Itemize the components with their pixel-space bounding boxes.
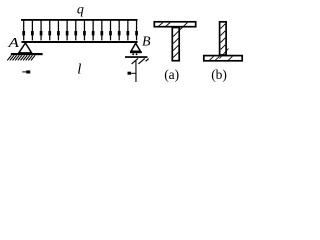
load arrow 14 bbox=[135, 20, 138, 40]
load arrow 4 bbox=[48, 20, 51, 40]
section (a) flange bbox=[154, 22, 195, 27]
pin support A hatching bbox=[7, 55, 35, 60]
roller support B hatching bbox=[132, 58, 149, 64]
svg-text:q: q bbox=[77, 3, 84, 18]
section (b) flange bbox=[204, 56, 242, 61]
roller support B roller dots bbox=[132, 53, 134, 55]
roller support B triangle bbox=[131, 43, 140, 51]
distributed load top line bbox=[21, 19, 138, 21]
load arrow 8 bbox=[83, 20, 86, 40]
load arrow 6 bbox=[66, 20, 69, 40]
section (a) web bbox=[172, 28, 179, 61]
beam bbox=[22, 41, 138, 43]
pin support A triangle bbox=[19, 43, 32, 53]
load arrow 10 bbox=[100, 20, 103, 40]
pin support A ground bar bbox=[11, 53, 43, 55]
load arrow 5 bbox=[57, 20, 60, 40]
section (b) web bbox=[220, 22, 227, 55]
svg-text:(a): (a) bbox=[164, 67, 179, 82]
section (a) hatching bbox=[159, 23, 188, 58]
svg-text:(b): (b) bbox=[211, 67, 227, 82]
load arrow 7 bbox=[74, 20, 77, 40]
dimension extension line bbox=[135, 61, 136, 82]
load arrow 9 bbox=[92, 20, 95, 40]
load arrow 11 bbox=[109, 20, 112, 40]
svg-text:B: B bbox=[142, 35, 151, 50]
dimension left arrow bbox=[22, 70, 30, 73]
roller support B ground line bbox=[125, 56, 148, 58]
load arrow 12 bbox=[118, 20, 121, 40]
roller support B base bar bbox=[130, 51, 142, 53]
load arrow 2 bbox=[31, 20, 34, 40]
load arrow 3 bbox=[40, 20, 43, 40]
section (b) hatching bbox=[210, 24, 233, 60]
load arrow 13 bbox=[127, 20, 130, 40]
svg-text:A: A bbox=[7, 36, 19, 51]
dimension right arrow bbox=[128, 72, 136, 75]
load arrow 1 bbox=[22, 20, 25, 40]
svg-text:l: l bbox=[77, 61, 81, 77]
